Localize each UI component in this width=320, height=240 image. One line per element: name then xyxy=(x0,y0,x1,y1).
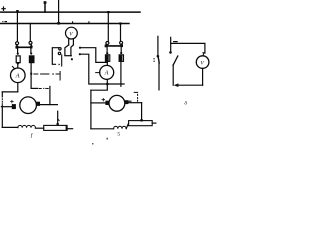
svg-text:A: A xyxy=(104,70,109,77)
svg-text:V: V xyxy=(200,61,204,67)
motor armature M2 xyxy=(109,95,125,111)
wire dash-dot at M2 xyxy=(134,92,137,101)
node selector output dot xyxy=(71,58,73,60)
node junction + bus / pole A1 xyxy=(16,10,19,13)
wire R1 slider tap xyxy=(57,111,59,125)
wire bottom horizontal with arrow xyxy=(178,84,203,86)
wire coil to rheostat R1 xyxy=(35,127,43,129)
wire bottom left horizontal to field coil xyxy=(2,126,17,128)
node junction feeder/- bus xyxy=(57,22,60,25)
wire pole B2 from - bus xyxy=(120,23,122,41)
wire Sb lower xyxy=(172,65,174,85)
node selector right contact upper xyxy=(79,47,81,49)
wire M1 right brush lead xyxy=(40,104,58,106)
wire corner at bottom of F1B drop xyxy=(31,87,38,89)
wire S1 B to fuse F1B xyxy=(30,48,32,52)
wire dash-dot line 1 (to selector) xyxy=(34,72,60,81)
wire left column lower xyxy=(1,105,3,127)
switch S1 hinge contact B xyxy=(29,41,32,44)
node R2 tap blob xyxy=(140,119,142,121)
switch S2 hinge contact B xyxy=(120,41,123,44)
node tick to meter top xyxy=(203,53,205,56)
wire right switch Sb pole xyxy=(170,37,172,51)
node junction + bus / pole A2 xyxy=(107,11,109,13)
node junction dash line 1 xyxy=(30,73,32,75)
wire left column upper xyxy=(1,92,3,97)
node Sb contact dot xyxy=(169,51,172,54)
node S1 bar end blobs xyxy=(16,46,33,49)
wire S2 A to fuse F2A xyxy=(106,47,108,52)
node speck bottom center xyxy=(92,143,93,144)
wire pole B1 from - bus xyxy=(29,23,31,41)
node fuse F2B top dot xyxy=(120,52,122,54)
inductor field coil f (machine 1) xyxy=(18,125,36,127)
op ammeter A1 xyxy=(10,68,25,83)
node R1 slider barb xyxy=(58,119,59,121)
switch S1 hinge contact A xyxy=(16,42,19,45)
node - (negative bus label) xyxy=(2,21,7,22)
switch Sb blade xyxy=(173,56,178,65)
switch Sa blade xyxy=(157,58,160,63)
wire ammeter A2 down xyxy=(106,79,108,90)
svg-text:A: A xyxy=(15,73,20,80)
switch S2 hinge contact A xyxy=(106,42,109,45)
wire ammeter A1 down xyxy=(17,83,19,92)
switch S2 blade B xyxy=(121,44,124,45)
node + (positive bus label) xyxy=(2,7,5,10)
switch selector blade right xyxy=(71,45,74,56)
node fuse F1A top dot xyxy=(17,53,19,55)
op meter V2 (right instrument) xyxy=(196,56,209,69)
label colon marks xyxy=(154,58,155,62)
switch S2 blade A xyxy=(105,44,108,45)
fuse F2B xyxy=(119,55,123,62)
brush M2 left xyxy=(105,101,109,105)
wire pole A1 from + bus xyxy=(16,12,18,41)
wire right circuit top xyxy=(171,43,205,53)
wire selector lower contact tail xyxy=(61,55,63,66)
node junction - bus / pole B2 xyxy=(119,22,121,24)
node ammeter A1 upper-left tick xyxy=(12,66,15,69)
fuse F1B xyxy=(29,56,34,63)
wire left corner horizontal xyxy=(2,91,17,93)
node arrowhead pointing left xyxy=(174,83,179,87)
svg-text:V: V xyxy=(69,32,73,38)
wire M2 left brush lead xyxy=(91,102,106,104)
node supply stub cap xyxy=(44,1,47,4)
wire R2 stub right xyxy=(152,122,156,124)
node R1 slider blob xyxy=(57,123,59,125)
node tick above top wire xyxy=(174,41,177,43)
brush M2 right xyxy=(125,100,129,104)
fuse F2A xyxy=(105,55,109,62)
node junction on ammeter A2 drop xyxy=(106,83,108,85)
switch selector bottom bar xyxy=(65,55,71,57)
op ammeter A2 xyxy=(100,65,114,79)
wire left column dash-dot xyxy=(1,99,3,105)
wire field 2 horizontal xyxy=(91,128,114,130)
svg-text:δ: δ xyxy=(184,101,187,107)
node dash dot at corner end xyxy=(59,64,60,65)
wire dash-dot line 2 xyxy=(39,88,48,89)
wire supply feeder to - bus xyxy=(58,0,60,23)
wire + busbar xyxy=(1,11,140,13)
wire S2 B to fuse F2B xyxy=(120,47,122,52)
brush M1 left xyxy=(12,104,16,109)
wire selector left contact corner xyxy=(52,48,58,65)
wire M2 right brush lead xyxy=(128,102,141,104)
brush M1 right xyxy=(37,102,41,106)
wire fuse F2A to ammeter A2 xyxy=(106,61,108,65)
node ammeter A2 left terminal tick xyxy=(96,72,100,74)
node speck bottom left of coil2 xyxy=(107,138,108,140)
wire - busbar xyxy=(1,23,130,25)
switch selector blade left xyxy=(65,45,69,55)
switch S1 tie bar xyxy=(16,46,31,48)
node + mark at M1 brush xyxy=(11,100,14,103)
resistor rheostat R2 xyxy=(129,121,153,126)
node R1 right terminal xyxy=(66,126,68,130)
fuse F1A xyxy=(16,56,20,63)
svg-text:f: f xyxy=(31,132,34,139)
wire M2 lead down to rheostat R2 xyxy=(141,103,143,121)
node + mark at M2 brush xyxy=(102,98,105,101)
node fuse F1B top dot xyxy=(30,52,32,54)
wire coil 2 to R2 xyxy=(126,123,128,128)
switch S2 tie bar xyxy=(106,45,122,47)
wire pole A2 from + bus xyxy=(107,12,109,41)
node selector left contact lower xyxy=(58,52,60,54)
node fuse F2A top dot xyxy=(106,52,108,54)
node tap tick on - bus at x88.9 xyxy=(88,22,90,24)
wire R1 stub right xyxy=(67,128,73,130)
node tap tick on - bus at x72.6 xyxy=(72,22,74,24)
node Sa contact dot xyxy=(157,55,160,58)
resistor rheostat R1 xyxy=(44,125,67,130)
wire V1 leg left xyxy=(68,39,70,45)
switch S1 blade B xyxy=(31,44,32,46)
op voltmeter V1 xyxy=(66,27,78,39)
inductor field coil (machine 2) xyxy=(114,126,127,129)
wire fuse F1A to ammeter A1 xyxy=(17,63,19,68)
node selector left contact upper xyxy=(59,48,61,50)
wire column to field of machine 2 xyxy=(90,90,92,129)
wire selector right lower to machine 2 minus xyxy=(81,54,124,84)
node selector right contact lower xyxy=(79,53,81,55)
wire M1 left brush lead xyxy=(1,106,11,108)
motor armature M1 xyxy=(20,97,37,114)
wire S1 A to fuse F1A xyxy=(17,48,19,52)
node fuse F1A bottom connector xyxy=(17,63,19,65)
wire corner below A2 xyxy=(91,89,107,91)
node S2 bar end blobs xyxy=(105,44,123,47)
wire V2 bottom down xyxy=(202,68,204,85)
wire voltmeter tap down to M1 lead xyxy=(49,86,51,104)
node - mark at M2 right brush xyxy=(128,100,131,102)
wire right switch Sa pole xyxy=(157,36,159,55)
wire supply stub to + bus xyxy=(44,3,46,13)
wire fuse F1B down xyxy=(30,63,32,89)
wire Sa lower xyxy=(158,63,160,90)
switch S1 blade A xyxy=(16,45,18,47)
wire V1 leg right xyxy=(72,39,74,45)
svg-text:5: 5 xyxy=(117,131,120,137)
wire fuse F2B down xyxy=(120,61,122,86)
wire selector right upper to machine 2 plus xyxy=(81,48,107,63)
